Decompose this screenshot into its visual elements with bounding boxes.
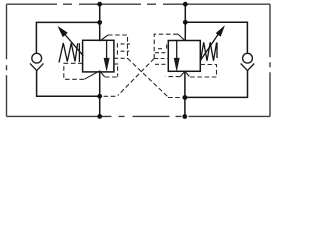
wire: left main line CB1 bottom to C1 port: [99, 72, 101, 117]
enclosure envelope (dash-dot assembly boundary): [7, 4, 271, 116]
CB1 flow path arrow: [104, 41, 109, 71]
wire: left check branch bottom: [37, 71, 100, 97]
node: port C2: [182, 114, 187, 119]
counterbalance valve CB2 body: [168, 41, 200, 72]
wire: right main line CB2 bottom to C2 port: [184, 71, 186, 116]
node: port V1: [97, 2, 102, 7]
node: right bottom tee: [183, 95, 188, 100]
wire: right main line V2 port to valve CB2 top: [184, 4, 186, 40]
node: port C1: [97, 114, 102, 119]
pilot ratio stubs beside CB2 (dashed): [154, 45, 168, 65]
CB1 adjustment arrow: [58, 27, 83, 56]
counterbalance valve CB1 body: [83, 40, 114, 72]
node: left bottom tee: [97, 94, 102, 99]
pilot line: CB1 spring chamber bracket (dashed): [64, 63, 118, 79]
pilot ratio stubs beside CB1 (dashed): [114, 43, 130, 76]
CB1 top port pilot stub: [100, 35, 108, 41]
node: left top tee: [97, 20, 102, 25]
CB2 bottom port pilot carets: [180, 71, 189, 76]
pilot line: CB2 external pilot from left main line (dashed): [104, 34, 178, 96]
check valve CV1 seat: [30, 63, 44, 70]
node: port V2: [183, 2, 188, 7]
check valve CV1 ball: [32, 53, 42, 63]
check valve CV2 seat: [241, 64, 255, 71]
CB2 spring: [201, 42, 218, 61]
CB1 bottom port pilot carets: [84, 71, 104, 79]
CB2 flow path arrow: [174, 41, 179, 71]
pilot line: CB1 external pilot from right main line (dashed): [108, 35, 183, 98]
wire: right check branch bottom: [185, 71, 248, 98]
wire: right check branch top: [185, 22, 247, 53]
CB2 top port pilot stub: [178, 34, 186, 41]
wire: left main line V1 port to valve CB1 top: [99, 4, 101, 40]
CB1 spring: [59, 43, 79, 63]
check valve CV2 ball: [243, 53, 253, 63]
node: right top tee: [183, 20, 188, 25]
wire: left check branch top: [36, 22, 99, 53]
pilot line: CB2 spring chamber bracket (dashed): [166, 65, 217, 78]
CB2 adjustment arrow: [200, 26, 225, 61]
